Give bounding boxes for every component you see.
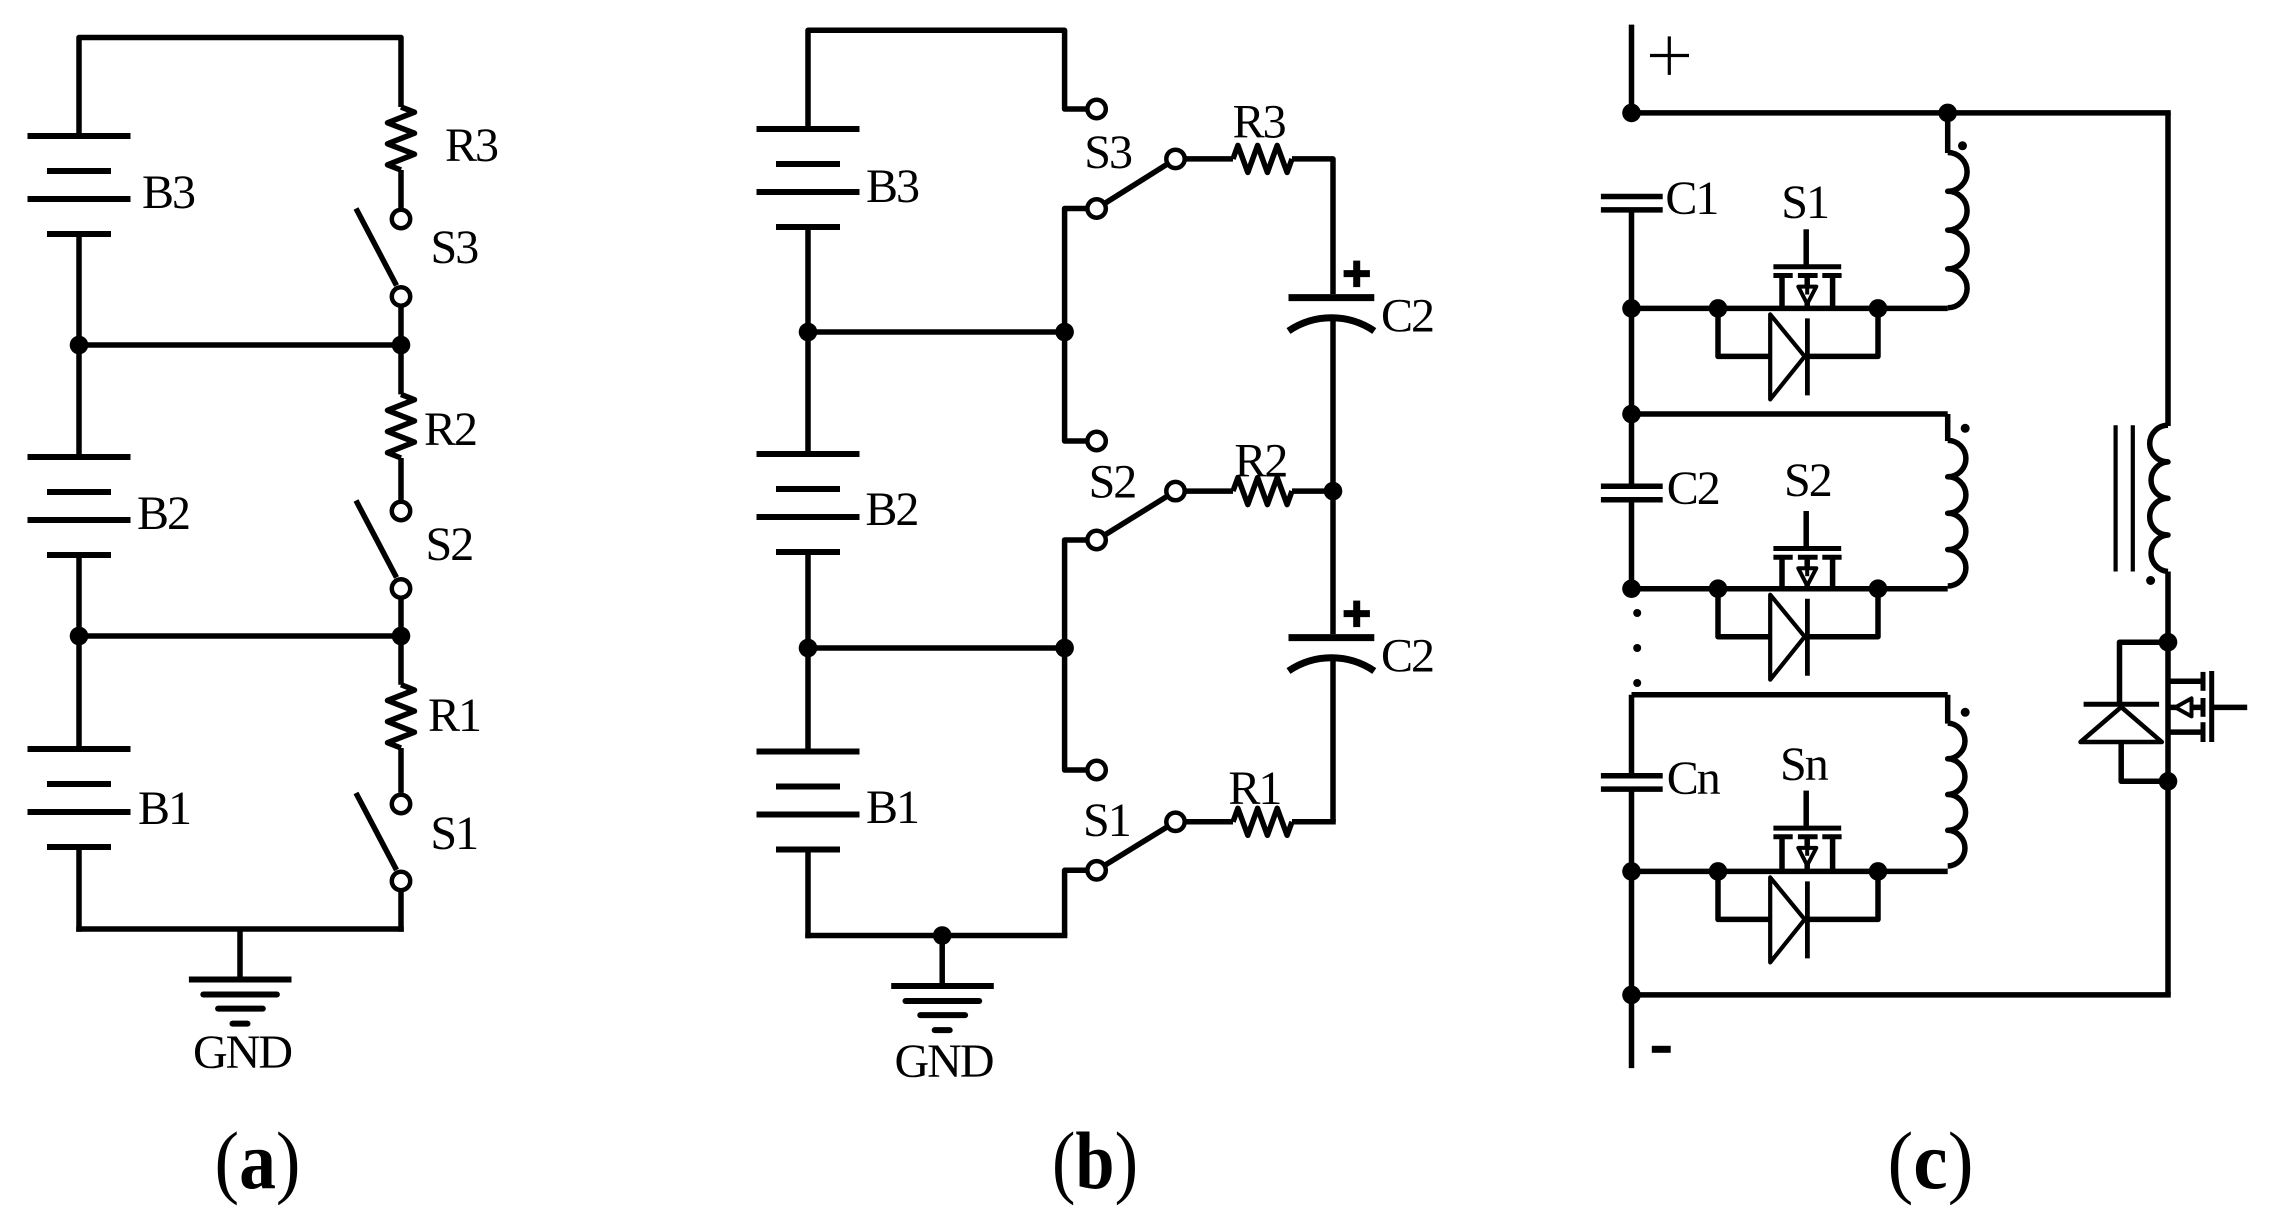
transformer core lines [2114,425,2118,571]
node A1 wire [79,342,401,348]
wire node to capacitor C2 bottom [1330,491,1336,634]
node A2 wire [79,633,401,639]
resistor R3b [1187,156,1234,162]
capacitor C2 top curved plate [1289,318,1375,331]
inductor L1 phase dot [1958,141,1967,150]
MOSFET S1c body stub [1804,276,1810,309]
ground stem [237,929,243,980]
ground b bar 2 [906,998,980,1004]
bottom rail of (c) [1632,992,2171,998]
output MOSFET drain elbow [2168,679,2203,685]
junction dot D2 cathode [1869,579,1888,598]
negative rail tip [1629,995,1635,1068]
plus sign of capacitor C2 top [1344,270,1370,277]
junction dot B2n right [1055,639,1074,658]
switch S1b upper-left contact [1087,761,1105,779]
svg-text:S1: S1 [430,807,477,860]
switch S1 bottom contact [392,872,410,890]
top rail of (c) [1632,110,2171,116]
svg-text:S3: S3 [1084,126,1132,179]
wire R1b to right rail [1292,819,1336,825]
wire R2b to node [1292,488,1333,494]
capacitor C1 [1601,194,1663,200]
svg-text:(c): (c) [1888,1115,1974,1206]
svg-text:R3: R3 [445,119,498,172]
wire B3b negative to node B1n [805,227,811,332]
svg-text:GND: GND [895,1035,993,1088]
switch S2 [356,501,397,578]
MOSFET Snc channel segments [1773,834,1792,839]
wire B1b negative to bottom rail [805,850,811,939]
inductor Ln phase dot [1961,708,1970,717]
svg-text:GND: GND [193,1026,291,1079]
inductor Ln winding [1948,723,1966,866]
svg-text:R1: R1 [1228,762,1280,815]
MOSFET S1c source lead [1779,276,1785,309]
junction dot A2 left [70,627,89,646]
wire B1 negative to bottom rail [76,847,82,932]
MOSFET S1c body arrow [1798,287,1816,304]
inductor L2 winding [1948,440,1966,586]
wire S2 to node A2 [398,600,404,637]
right rail top segment [2165,113,2171,426]
battery B2 [28,454,131,460]
output MOSFET source elbow [2168,729,2203,735]
ground bar 3 [218,1006,263,1012]
wire B2b negative to node B2n [805,552,811,648]
ground bar 1 [189,977,292,983]
inductor L2 phase dot [1961,424,1970,433]
diode Dn cathode lead [1807,871,1878,919]
ground bar 2 [203,992,277,998]
node B2n wire [808,645,1065,651]
MOSFET Snc body arrow [1798,848,1816,865]
MOSFET S2c source lead [1779,557,1785,589]
ground bar 4 [233,1021,248,1027]
capacitor C2c [1601,484,1663,490]
junction dot B2n left [799,639,818,658]
MOSFET S1c channel segments [1773,273,1792,278]
junction dot A2 right [392,627,411,646]
diode D1 anode lead [1718,308,1770,356]
diode Dn anode lead [1718,871,1770,919]
circuit (c): positive rail tip [1629,25,1635,116]
wire S3 to node A1 [398,308,404,346]
svg-text:B2: B2 [137,487,189,540]
ground stem b [939,936,945,987]
wire cell2 top to coil L2 [1945,414,1951,441]
diode Dn triangle [1770,877,1805,962]
svg-text:C2: C2 [1667,462,1719,515]
plus terminal sign [1650,54,1689,57]
switch S3b lower-left contact [1087,199,1105,217]
switch S1b common contact [1166,813,1184,831]
MOSFET S1c gate bar [1773,264,1841,269]
battery B1b [757,749,860,755]
junction dot A1 right [392,336,411,355]
wire node B2n to B1b [805,648,811,752]
wire C2 top to node R2 [1330,319,1336,491]
capacitor C2 bottom curved plate [1289,658,1375,671]
resistor R3 [388,107,415,170]
svg-text:S3: S3 [431,221,479,274]
switch S3 bottom contact [392,287,410,305]
wire left rail cell n top to Cn [1629,695,1635,776]
svg-text:S2: S2 [1089,456,1136,509]
diode D2 triangle [1770,595,1805,680]
capacitor Cn [1601,773,1663,779]
ground b bar 1 [891,983,994,989]
diode D1 cathode bar [1805,318,1810,395]
svg-text:S1: S1 [1781,176,1828,229]
svg-text:Cn: Cn [1667,752,1721,805]
junction dot D2 anode [1709,579,1728,598]
MOSFET S2c gate bar [1773,546,1841,551]
svg-text:C1: C1 [1665,172,1717,225]
junction dot A1 left [70,336,89,355]
cell n top wire [1632,692,1948,698]
svg-text:(a): (a) [215,1115,301,1206]
MOSFET S2c drain lead [1830,557,1836,589]
plus sign of capacitor C2 bottom [1344,610,1370,617]
wire left rail Cn to bottom [1629,789,1635,995]
transformer secondary winding [2150,425,2168,571]
switch S1b arm [1097,822,1176,871]
junction dot B1n right [1055,323,1074,342]
wire R3b to capacitor C2 top [1292,159,1333,294]
svg-text:R2: R2 [424,403,476,456]
diode D1 cathode lead [1807,308,1878,356]
junction dot top left [1622,104,1641,123]
wire left rail C2 to cell2 node [1629,500,1635,591]
ellipsis dots for more cells [1633,609,1641,617]
cell 2 top wire [1632,411,1948,417]
MOSFET Snc gate lead [1803,791,1809,829]
wire node B2n to S1b upper contact [1065,648,1086,770]
wire node A1 to B2 [76,345,82,457]
minus terminal sign [1652,1046,1671,1053]
cell n source/drain wire [1632,869,1948,875]
wire S3b lower contact to node B1n [1065,209,1086,333]
junction dot Dn cathode [1869,862,1888,881]
switch S2b lower-left contact [1087,531,1105,549]
switch S3 top contact [392,210,410,228]
svg-text:S2: S2 [426,518,473,571]
MOSFET Snc body stub [1804,837,1810,872]
junction dot cell2 rail [1622,579,1641,598]
svg-text:C2: C2 [1381,630,1433,683]
junction dot Dn anode [1709,862,1728,881]
wire S1 to bottom rail [398,892,404,932]
svg-text:Sn: Sn [1780,738,1829,791]
output MOSFET body arrow [2175,698,2191,716]
circuit (a): wire from B3 positive terminal over the top to R3 [79,38,401,137]
junction dot cell1 rail [1622,299,1641,318]
switch S1 [356,793,397,870]
junction dot R2-C2 [1324,482,1343,501]
battery B3b [757,126,860,132]
bottom rail of (b) [805,933,1067,939]
wire B3 negative to node A1 [76,234,82,345]
battery B3 [28,133,131,139]
switch S1 top contact [392,795,410,813]
MOSFET S1c drain lead [1830,276,1836,309]
MOSFET S2c channel segments [1773,555,1792,560]
wire left rail C1 to C2 [1629,210,1635,486]
cell 2 source/drain wire [1632,586,1948,592]
diode D1 triangle [1770,314,1805,399]
svg-text:B2: B2 [865,483,917,536]
switch S3b arm [1097,159,1176,209]
MOSFET Snc source lead [1779,837,1785,872]
MOSFET Snc drain lead [1830,837,1836,872]
capacitor C2 bottom flat plate [1289,634,1375,641]
switch S3b upper-left contact [1087,100,1105,118]
switch S2 bottom contact [392,579,410,597]
svg-text:B1: B1 [138,782,190,835]
inductor L1 winding [1948,153,1967,308]
resistor R1b [1187,819,1234,825]
resistor R2b [1187,488,1234,494]
switch S3 [356,209,397,286]
MOSFET S2c body stub [1804,557,1810,589]
svg-text:(b): (b) [1052,1115,1138,1206]
wire C2 bottom to R1b corner [1330,659,1336,822]
junction dot top coil 1 [1938,104,1957,123]
junction dot cell2 top [1622,405,1641,424]
svg-text:R1: R1 [428,689,480,742]
wire node B1n to S2b upper contact [1065,332,1086,441]
wire B2 negative to node A2 [76,555,82,636]
output MOSFET channel segments [2201,672,2206,691]
switch S3b common contact [1166,150,1184,168]
diode D2 cathode bar [1805,599,1810,676]
output diode cathode bar [2084,702,2160,707]
bottom rail of (a) [76,926,404,932]
cell 1 source/drain wire [1632,306,1948,312]
ground b bar 3 [920,1012,965,1018]
output MOSFET gate lead [2212,705,2248,711]
wire node B1n to B2b [805,332,811,454]
node B1n wire [808,329,1065,335]
wire top to coil L1 [1945,113,1951,153]
svg-text:S2: S2 [1784,454,1831,507]
circuit (b): wire from B3 positive over the top to S3 stub [808,30,1086,129]
junction dot D1 anode [1709,299,1728,318]
battery B1 [28,746,131,752]
MOSFET S2c body arrow [1798,568,1816,585]
switch S2b upper-left contact [1087,432,1105,450]
svg-text:B3: B3 [142,166,195,219]
diode D2 anode lead [1718,589,1770,637]
output MOSFET gate bar [2209,671,2214,742]
output diode cathode lead [2120,642,2169,702]
output diode anode lead [2121,742,2168,781]
wire cell n top to coil Ln [1945,695,1951,724]
diode Dn cathode bar [1805,881,1810,958]
junction dot bottom left [1622,986,1641,1005]
right rail to output MOSFET [2165,572,2171,782]
capacitor C2 top flat plate [1289,294,1375,301]
switch S1b lower-left contact [1087,861,1105,879]
resistor R2 [398,345,404,394]
svg-text:R2: R2 [1234,435,1286,488]
diode D2 cathode lead [1807,589,1878,637]
junction dot output bottom [2159,772,2178,791]
ground b bar 4 [935,1027,950,1033]
right rail bottom segment [2165,781,2171,995]
wire S1b lower contact to bottom rail [1065,870,1086,935]
output MOSFET body stub [2168,705,2203,711]
junction dot B1n left [799,323,818,342]
switch S2b arm [1097,491,1176,540]
svg-text:C2: C2 [1381,290,1433,343]
junction dot output top [2159,633,2178,652]
MOSFET S1c gate lead [1803,229,1809,266]
svg-text:B1: B1 [866,781,918,834]
wire node A2 to B1 [76,636,82,749]
switch S2b common contact [1166,482,1184,500]
MOSFET S2c gate lead [1803,511,1809,549]
resistor R1 [398,636,404,685]
MOSFET Snc gate bar [1773,826,1841,831]
wire S2b lower contact to node B2n [1065,540,1086,648]
junction dot cell n rail [1622,862,1641,881]
battery B2b [757,451,860,457]
junction dot ground b [933,926,952,945]
svg-text:S1: S1 [1083,794,1130,847]
secondary phase dot [2146,576,2155,585]
junction dot D1 cathode [1869,299,1888,318]
output diode triangle [2081,707,2162,742]
svg-text:R3: R3 [1233,96,1286,149]
switch S2 top contact [392,502,410,520]
svg-text:B3: B3 [866,160,919,213]
